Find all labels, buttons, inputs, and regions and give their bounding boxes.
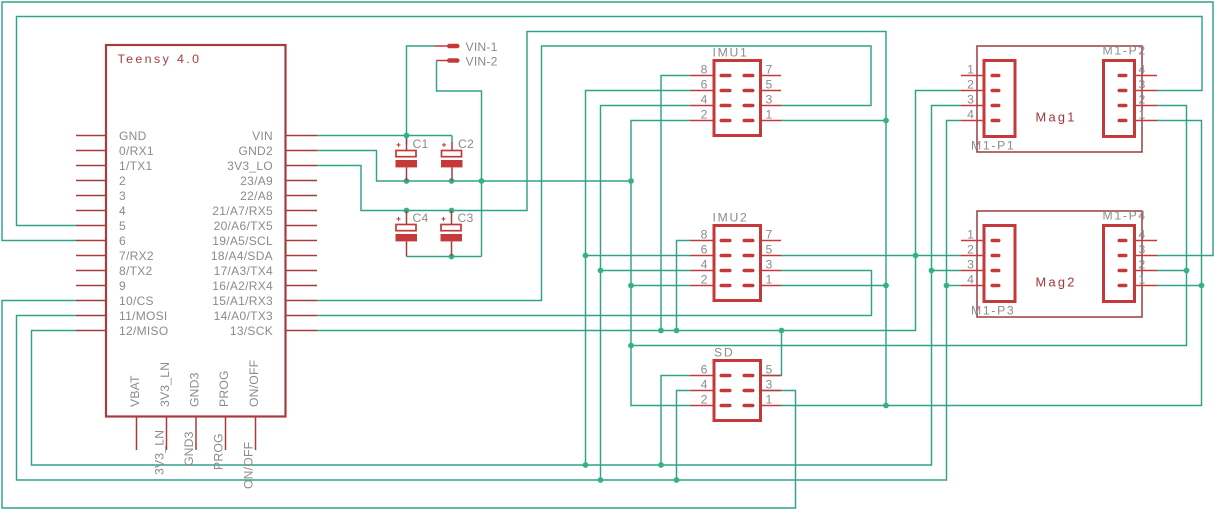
svg-text:2: 2	[119, 174, 126, 188]
svg-text:SD: SD	[714, 346, 734, 360]
svg-text:VIN-1: VIN-1	[466, 40, 498, 54]
svg-text:1/TX1: 1/TX1	[119, 159, 153, 173]
svg-text:M1-P1: M1-P1	[971, 139, 1015, 153]
svg-text:4: 4	[1139, 228, 1146, 242]
M1-P2 pin numbers	[1139, 63, 1146, 122]
capacitor C4	[396, 211, 418, 257]
svg-text:2: 2	[967, 78, 974, 92]
connector M1-P4	[1104, 226, 1158, 302]
svg-text:ON/OFF: ON/OFF	[241, 442, 255, 489]
svg-text:4: 4	[701, 93, 708, 107]
Teensy U1 left pin stubs	[76, 136, 106, 331]
M1-P4 pin numbers	[1139, 228, 1146, 287]
svg-text:5: 5	[766, 243, 773, 257]
junction dot VIN net at C1 top	[404, 133, 410, 139]
wire net SCK (Teensy 13/SCK - IMU pin8 drops, SD pin5, Mag pin2 riser)	[317, 76, 961, 376]
svg-text:GND2: GND2	[238, 144, 273, 158]
svg-text:5: 5	[766, 363, 773, 377]
junction dots MOSI net	[598, 268, 950, 483]
svg-text:M1-P3: M1-P3	[971, 303, 1015, 317]
svg-text:12/MISO: 12/MISO	[119, 324, 168, 338]
svg-text:6: 6	[701, 243, 708, 257]
svg-text:4: 4	[119, 204, 126, 218]
svg-text:VIN: VIN	[252, 129, 273, 143]
svg-text:18/A4/SDA: 18/A4/SDA	[211, 249, 273, 263]
svg-text:0/RX1: 0/RX1	[119, 144, 154, 158]
wire net D6 (Teensy pin6 - top outer loop - Mag2 M1-P4 pin3)	[2, 2, 1213, 256]
svg-text:1: 1	[967, 63, 974, 77]
svg-text:GND: GND	[119, 129, 147, 143]
svg-text:3: 3	[1139, 243, 1146, 257]
svg-text:16/A2/RX4: 16/A2/RX4	[212, 279, 273, 293]
Teensy U1 bottom pin names (rotated)	[128, 360, 261, 407]
svg-text:3V3_LO: 3V3_LO	[227, 159, 273, 173]
svg-text:1: 1	[766, 393, 773, 407]
wire net MISO (Teensy 12/MISO - bottom loop - IMU pin6 riser, SD pin6, Mag pin3 risers)	[32, 91, 962, 466]
svg-text:VBAT: VBAT	[128, 375, 142, 407]
svg-text:C2: C2	[458, 137, 474, 151]
Teensy 4.0 module U1 box	[106, 45, 286, 417]
svg-text:7: 7	[766, 63, 773, 77]
module Mag1 outline	[977, 46, 1142, 152]
svg-text:1: 1	[766, 273, 773, 287]
svg-text:1: 1	[1139, 273, 1146, 287]
svg-text:3: 3	[967, 258, 974, 272]
svg-text:Mag1: Mag1	[1036, 109, 1077, 124]
svg-text:4: 4	[701, 258, 708, 272]
wire net D5 (Teensy pin5 - second top loop - Mag1 M1-P2 pin3)	[17, 17, 1203, 226]
svg-text:20/A6/TX5: 20/A6/TX5	[214, 219, 273, 233]
junction dots MISO net	[583, 253, 935, 468]
net labels at Teensy bottom pins (rotated)	[152, 430, 255, 489]
svg-text:C3: C3	[458, 211, 474, 225]
Teensy U1 right pin names	[211, 129, 273, 338]
connector IMU1	[691, 61, 782, 136]
capacitor C1	[396, 138, 418, 181]
wire net RX3 (Teensy 15/A1/RX3 - IMU1 pin3)	[317, 46, 871, 301]
svg-text:4: 4	[701, 378, 708, 392]
wire net GND (Teensy GND2 - C1/C2 bottoms rail - IMU pin2s - SD pin2 - Mag P2/P4 pin2)	[317, 106, 1187, 406]
svg-text:1: 1	[1139, 108, 1146, 122]
junction dot VIN-2 net at C3 bottom	[449, 254, 455, 260]
svg-text:GND3: GND3	[188, 372, 202, 407]
wire net TX3 (Teensy 14/A0/TX3 - IMU2 pin3)	[317, 271, 872, 316]
svg-text:IMU1: IMU1	[713, 46, 749, 60]
svg-text:3: 3	[119, 189, 126, 203]
M1-P3 pin numbers	[967, 228, 974, 287]
svg-text:21/A7/RX5: 21/A7/RX5	[212, 204, 273, 218]
svg-text:2: 2	[701, 393, 708, 407]
svg-text:5: 5	[119, 219, 126, 233]
wire net CS 10/CS (Teensy 10/CS - bottom outer loop - SD pin3)	[2, 301, 796, 509]
svg-text:3: 3	[766, 258, 773, 272]
capacitor C2	[441, 142, 463, 181]
svg-text:22/A8: 22/A8	[240, 189, 273, 203]
wire net MOSI (Teensy 11/MOSI - bottom loop - IMU pin4 riser, SD pin4, Mag pin4 risers)	[17, 106, 962, 481]
SD pin numbers	[701, 363, 773, 407]
svg-text:2: 2	[701, 108, 708, 122]
svg-text:23/A9: 23/A9	[240, 174, 273, 188]
svg-text:PROG: PROG	[217, 370, 231, 407]
svg-text:3: 3	[967, 93, 974, 107]
connector IMU2	[691, 226, 782, 301]
svg-text:3: 3	[766, 378, 773, 392]
junction dots SCK net	[658, 253, 918, 334]
Teensy U1 right pin stubs	[286, 136, 318, 331]
connector M1-P3	[961, 226, 1015, 302]
svg-text:3: 3	[766, 93, 773, 107]
svg-text:11/MOSI: 11/MOSI	[119, 309, 168, 323]
wire net VIN (Teensy VIN - VIN-1 pin - C1/C2 tops)	[317, 46, 452, 144]
svg-text:13/SCK: 13/SCK	[230, 324, 273, 338]
junction dots GND net	[404, 178, 1190, 348]
wire net 3V3 (Teensy 3V3_LO - C3/C4 tops - IMU pin1s - SD pin1 - Mag P2/P4 pin1)	[317, 32, 1202, 406]
svg-text:14/A0/TX3: 14/A0/TX3	[214, 309, 273, 323]
svg-text:Teensy 4.0: Teensy 4.0	[118, 52, 202, 66]
svg-text:M1-P4: M1-P4	[1103, 208, 1147, 222]
svg-text:3V3_LN: 3V3_LN	[152, 430, 166, 475]
wire net VIN-2 return (VIN-2 pin - C3/C4 bottoms, joins GND rail)	[407, 61, 482, 257]
svg-text:VIN-2: VIN-2	[466, 54, 498, 68]
connector SD	[691, 361, 782, 421]
svg-text:2: 2	[967, 243, 974, 257]
svg-text:3V3_LN: 3V3_LN	[158, 362, 172, 407]
junction dots 3V3 net	[404, 118, 1205, 409]
svg-text:4: 4	[1139, 63, 1146, 77]
svg-text:6: 6	[119, 234, 126, 248]
svg-text:9: 9	[119, 279, 126, 293]
connector M1-P2	[1104, 61, 1158, 137]
svg-text:8/TX2: 8/TX2	[119, 264, 153, 278]
svg-text:Mag2: Mag2	[1036, 274, 1077, 289]
svg-text:C4: C4	[413, 211, 429, 225]
svg-text:5: 5	[766, 78, 773, 92]
svg-text:ON/OFF: ON/OFF	[247, 360, 261, 407]
pin VIN-2	[437, 58, 460, 63]
svg-text:15/A1/RX3: 15/A1/RX3	[212, 294, 273, 308]
svg-text:GND3: GND3	[182, 431, 196, 466]
svg-text:PROG: PROG	[211, 433, 225, 470]
svg-text:2: 2	[701, 273, 708, 287]
Teensy U1 left pin names	[119, 129, 168, 338]
M1-P1 pin numbers	[967, 63, 974, 122]
svg-text:17/A3/TX4: 17/A3/TX4	[214, 264, 273, 278]
svg-text:8: 8	[701, 228, 708, 242]
svg-text:7: 7	[766, 228, 773, 242]
svg-text:1: 1	[766, 108, 773, 122]
svg-text:1: 1	[967, 228, 974, 242]
pin VIN-1	[435, 44, 460, 49]
svg-text:3: 3	[1139, 78, 1146, 92]
module Mag2 outline	[977, 211, 1142, 317]
svg-text:4: 4	[967, 108, 974, 122]
svg-text:6: 6	[701, 78, 708, 92]
svg-text:IMU2: IMU2	[713, 211, 749, 225]
svg-text:C1: C1	[413, 137, 429, 151]
IMU1 pin numbers	[701, 63, 773, 122]
svg-text:2: 2	[1139, 93, 1146, 107]
connector M1-P1	[961, 61, 1015, 137]
svg-text:M1-P2: M1-P2	[1103, 43, 1147, 57]
svg-text:19/A5/SCL: 19/A5/SCL	[212, 234, 273, 248]
svg-text:6: 6	[701, 363, 708, 377]
capacitor C3	[441, 211, 463, 257]
svg-text:10/CS: 10/CS	[119, 294, 154, 308]
svg-text:2: 2	[1139, 258, 1146, 272]
svg-text:4: 4	[967, 273, 974, 287]
IMU2 pin numbers	[701, 228, 773, 287]
svg-text:7/RX2: 7/RX2	[119, 249, 154, 263]
svg-text:8: 8	[701, 63, 708, 77]
Teensy U1 bottom pin stubs	[137, 417, 256, 451]
